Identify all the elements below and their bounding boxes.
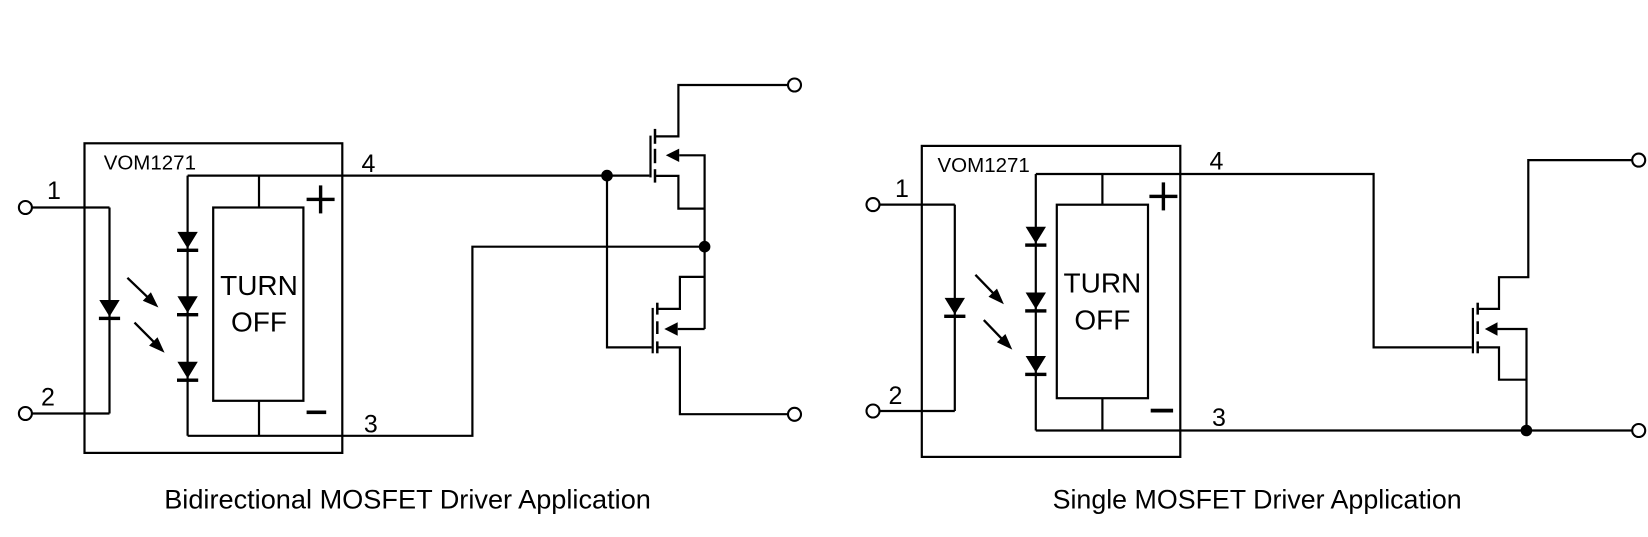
svg-text:Single MOSFET Driver Applicati: Single MOSFET Driver Application	[1053, 484, 1462, 514]
svg-text:OFF: OFF	[231, 307, 287, 338]
svg-text:4: 4	[361, 150, 375, 178]
svg-text:VOM1271: VOM1271	[104, 151, 196, 174]
svg-text:2: 2	[888, 382, 902, 410]
svg-text:VOM1271: VOM1271	[938, 154, 1030, 177]
svg-text:TURN: TURN	[1064, 268, 1142, 299]
svg-text:3: 3	[1212, 404, 1226, 432]
svg-text:4: 4	[1209, 147, 1223, 175]
svg-text:TURN: TURN	[220, 270, 298, 301]
svg-text:2: 2	[41, 384, 55, 412]
svg-text:3: 3	[364, 410, 378, 438]
svg-text:OFF: OFF	[1074, 305, 1130, 336]
svg-text:1: 1	[895, 175, 909, 203]
svg-text:Bidirectional MOSFET Driver Ap: Bidirectional MOSFET Driver Application	[164, 484, 651, 515]
svg-text:1: 1	[47, 177, 61, 205]
